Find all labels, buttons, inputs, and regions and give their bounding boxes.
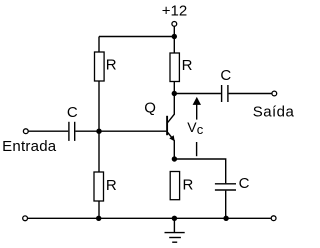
svg-text:Entrada: Entrada	[2, 138, 57, 155]
svg-text:C: C	[220, 67, 231, 84]
svg-text:C: C	[239, 175, 250, 192]
svg-text:c: c	[197, 122, 204, 137]
svg-text:+12: +12	[162, 3, 187, 20]
svg-text:R: R	[106, 56, 117, 73]
svg-text:Q: Q	[144, 100, 156, 117]
svg-text:C: C	[67, 104, 78, 121]
svg-text:Saída: Saída	[253, 103, 295, 120]
svg-text:R: R	[182, 57, 193, 74]
svg-text:R: R	[183, 176, 194, 193]
svg-text:V: V	[187, 119, 197, 135]
svg-text:R: R	[106, 177, 117, 194]
